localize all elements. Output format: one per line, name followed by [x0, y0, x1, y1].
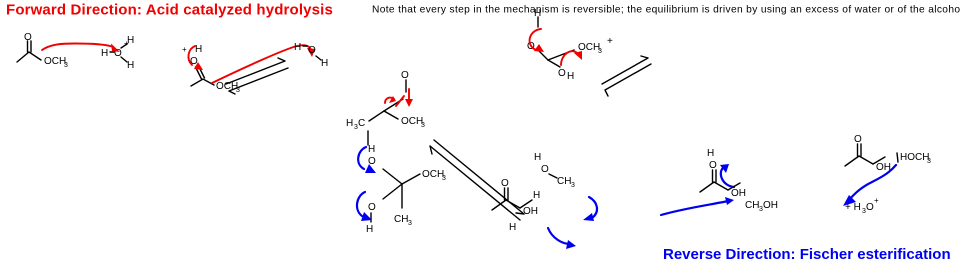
svg-text:H: H	[534, 152, 541, 163]
red circular arrow on species 5	[530, 29, 541, 50]
svg-text:O: O	[308, 45, 316, 56]
equilibrium arrow 3 (diagonal)	[602, 56, 651, 96]
equilibrium arrow 2 (long diagonal)	[430, 140, 524, 220]
blue curved arrow b1	[358, 147, 366, 169]
red long curved arrow: to water	[212, 45, 311, 83]
svg-text:H: H	[509, 222, 516, 233]
svg-text:OH: OH	[523, 206, 538, 217]
svg-text:O: O	[866, 202, 874, 213]
blue curved arrow b2	[357, 192, 365, 216]
svg-text:+: +	[874, 196, 879, 205]
svg-text:O: O	[24, 32, 32, 43]
species 6: protonated carboxylic acid + methanol (bottom)	[492, 188, 532, 210]
svg-text:OCH: OCH	[44, 56, 66, 67]
svg-text:H: H	[101, 48, 108, 59]
svg-text:H: H	[567, 71, 574, 82]
species 5: protonated tetrahedral intermediate (top)	[538, 17, 574, 67]
equilibrium arrow 1 (diagonal)	[226, 58, 288, 94]
svg-text:O: O	[854, 134, 862, 145]
svg-text:H: H	[707, 148, 714, 159]
red arc arrow on species 5	[561, 51, 578, 65]
svg-text:+ H: + H	[845, 202, 861, 213]
svg-text:O: O	[541, 164, 549, 175]
svg-text:CH: CH	[745, 200, 759, 211]
svg-text:H: H	[534, 8, 541, 19]
svg-text:CH: CH	[394, 214, 408, 225]
svg-text:H: H	[127, 60, 134, 71]
svg-text:O: O	[558, 68, 566, 79]
red proton marks on species 3	[385, 98, 394, 103]
svg-text:3: 3	[598, 48, 602, 55]
svg-text:Reverse Direction: Fischer es: Reverse Direction: Fischer esterificatio…	[663, 246, 951, 263]
svg-text:OH: OH	[731, 188, 746, 199]
svg-text:3: 3	[421, 122, 425, 129]
svg-text:+: +	[607, 36, 613, 47]
svg-text:O: O	[401, 70, 409, 81]
svg-text:3: 3	[927, 158, 931, 165]
svg-text:OCH: OCH	[422, 169, 444, 180]
blue arrow on species 6 left	[548, 228, 570, 244]
svg-text:H: H	[346, 118, 353, 129]
svg-text:H: H	[321, 58, 328, 69]
species 3b: oxocarbenium	[369, 80, 406, 121]
svg-text:3: 3	[571, 182, 575, 189]
red circular arrow on species 2	[188, 46, 195, 65]
svg-text:H: H	[294, 42, 301, 53]
svg-text:O: O	[501, 178, 509, 189]
blue s-curve arrow	[849, 165, 896, 200]
svg-text:OCH: OCH	[216, 81, 238, 92]
blue c-arc arrow	[721, 167, 734, 187]
svg-text:OCH: OCH	[401, 116, 423, 127]
svg-text:O: O	[368, 202, 376, 213]
svg-text:CH: CH	[557, 176, 571, 187]
svg-text:H: H	[366, 224, 373, 235]
svg-text:H: H	[195, 44, 202, 55]
svg-text:OH: OH	[876, 162, 891, 173]
species 2: protonated ester	[191, 66, 214, 86]
species 4: tetrahedral intermediate	[368, 131, 420, 222]
svg-text:H: H	[127, 35, 134, 46]
svg-text:3: 3	[64, 62, 68, 69]
blue long arrow to species 7	[661, 201, 728, 215]
svg-text:+: +	[182, 45, 187, 54]
svg-text:3: 3	[408, 220, 412, 227]
svg-text:3: 3	[442, 175, 446, 182]
svg-text:OH: OH	[763, 200, 778, 211]
svg-text:H: H	[368, 144, 375, 155]
svg-text:H: H	[533, 190, 540, 201]
blue arc on species 6 right	[589, 197, 597, 218]
svg-text:Forward Direction: Acid catal: Forward Direction: Acid catalyzed hydrol…	[6, 2, 333, 19]
species 7: carboxylic acid + methanol	[700, 170, 740, 192]
red curved arrow 1: carbonyl O to H3O+ proton	[42, 44, 112, 51]
svg-text:Note that every step in the me: Note that every step in the mechanism is…	[372, 5, 960, 16]
species 8: acid + methanol rightmost	[845, 144, 885, 166]
svg-text:O: O	[709, 160, 717, 171]
species 1: methyl ester	[17, 41, 41, 62]
svg-text:C: C	[358, 118, 365, 129]
svg-text:HOCH: HOCH	[900, 152, 929, 163]
